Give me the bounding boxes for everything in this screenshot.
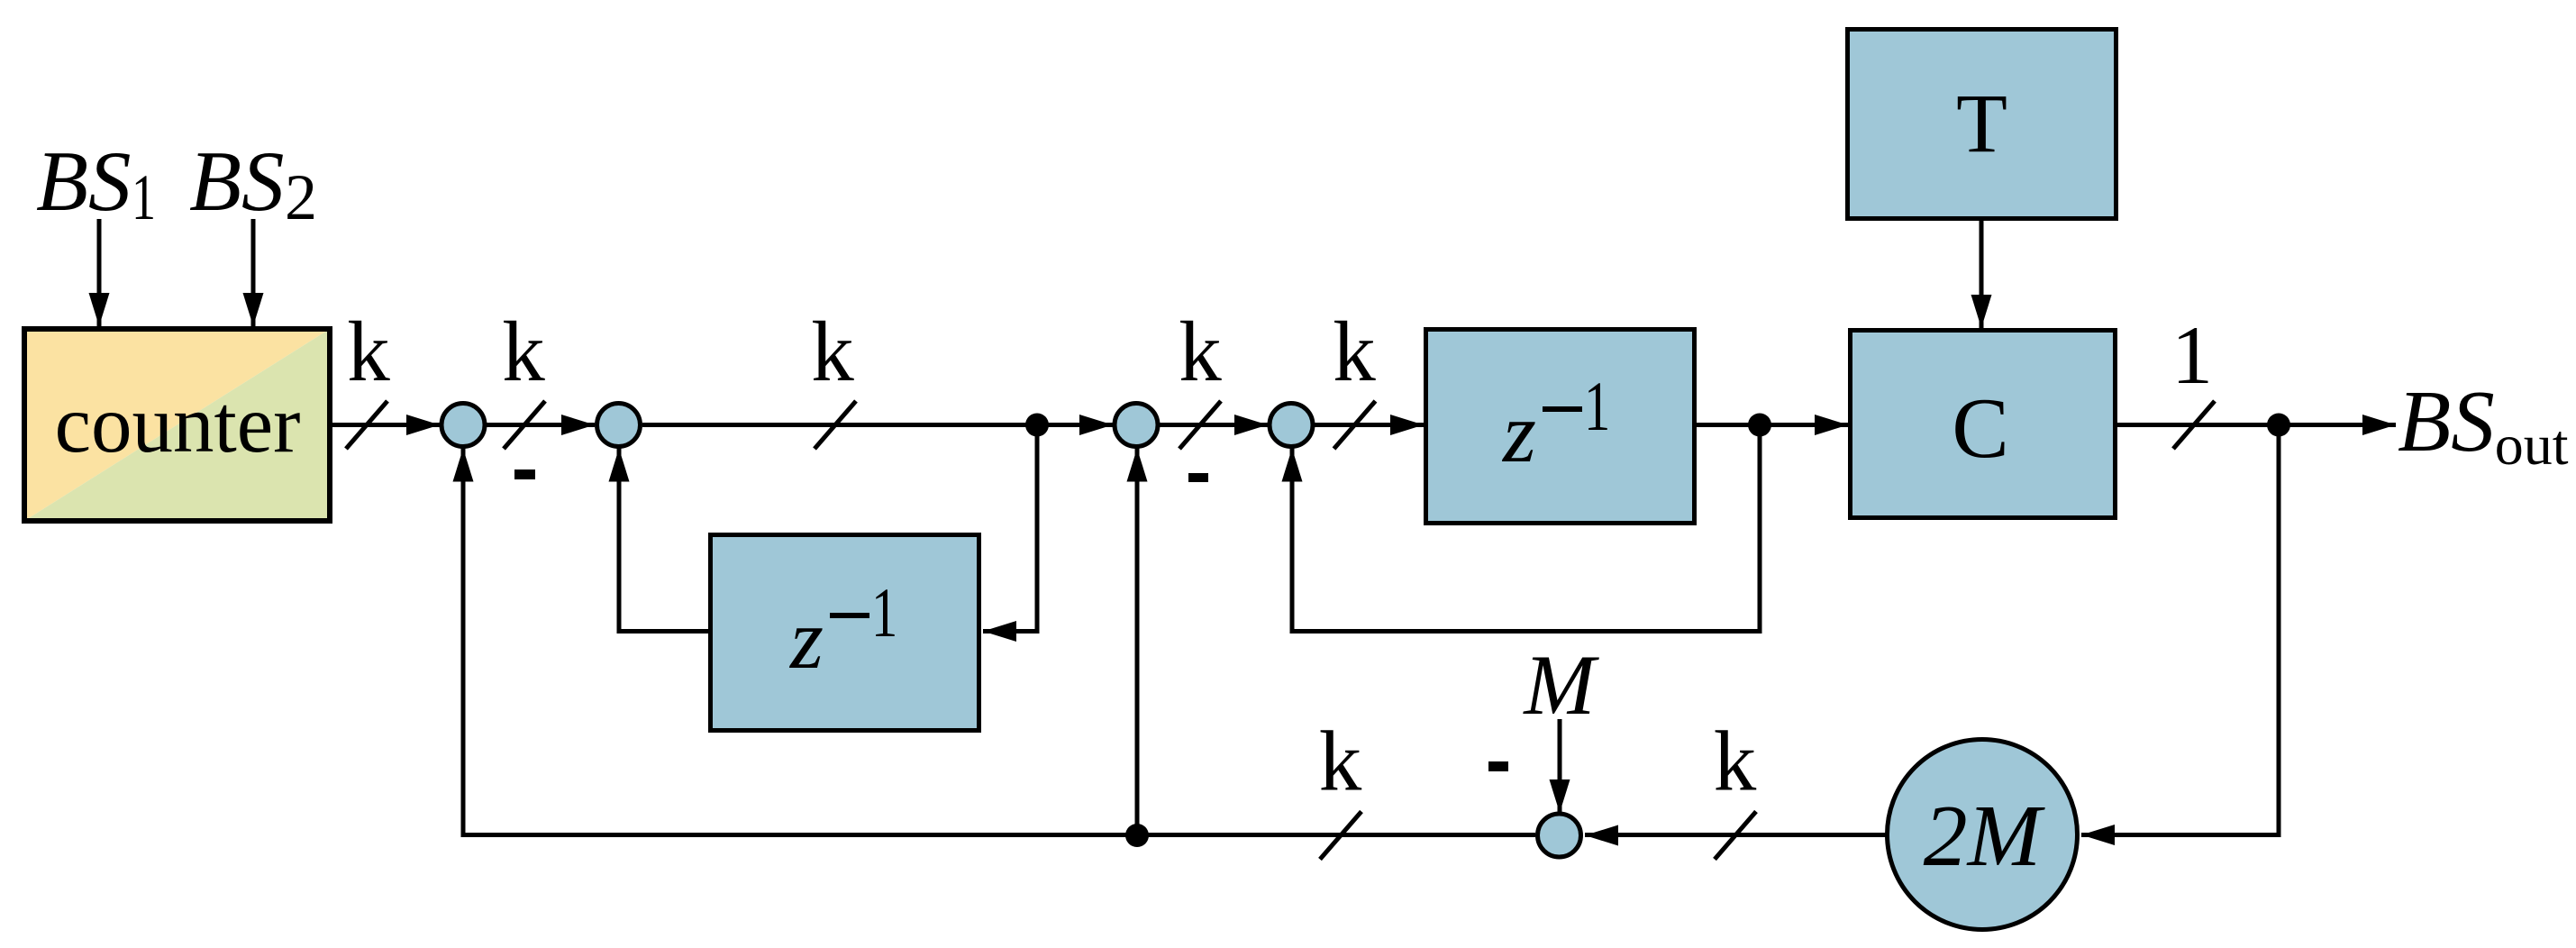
- svg-text:2: 2: [285, 161, 317, 233]
- svg-text:1: 1: [2171, 309, 2213, 401]
- svg-text:BS: BS: [36, 133, 132, 229]
- svg-text:counter: counter: [55, 378, 301, 469]
- svg-text:1: 1: [1584, 368, 1610, 445]
- svg-text:BS: BS: [189, 133, 285, 229]
- svg-text:k: k: [502, 304, 545, 399]
- svg-text:k: k: [1179, 304, 1222, 399]
- svg-text:2M: 2M: [1924, 788, 2046, 885]
- svg-text:M: M: [1522, 637, 1599, 733]
- svg-text:k: k: [1319, 714, 1362, 809]
- svg-text:C: C: [1952, 380, 2008, 476]
- svg-text:z: z: [1501, 385, 1536, 480]
- svg-text:1: 1: [132, 161, 156, 233]
- svg-text:z: z: [788, 591, 824, 687]
- svg-text:k: k: [347, 304, 390, 399]
- svg-text:T: T: [1956, 77, 2007, 170]
- svg-text:1: 1: [871, 574, 897, 652]
- svg-text:k: k: [811, 304, 854, 399]
- svg-text:k: k: [1333, 304, 1376, 399]
- svg-text:k: k: [1714, 714, 1757, 809]
